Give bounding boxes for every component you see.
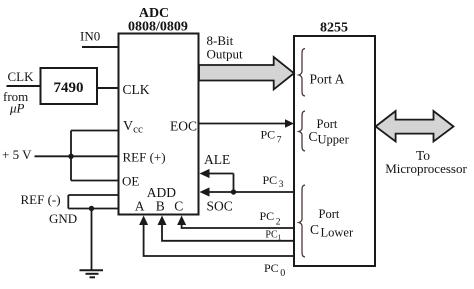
- wire to REF (+) pin: [71, 155, 119, 157]
- wire REF (-) vertical: [67, 195, 69, 209]
- wire PC1 to pin B: [162, 221, 294, 241]
- wire CLK source to 7490: [7, 85, 41, 87]
- svg-text:PC0: PC0: [264, 261, 285, 279]
- svg-text:PC7: PC7: [261, 128, 282, 146]
- arrowhead ALE into ADC: [200, 169, 210, 178]
- wire REF (-) to ADC: [68, 194, 118, 196]
- svg-text:7490: 7490: [54, 80, 84, 96]
- Port C lower label: [310, 207, 354, 240]
- svg-text:B: B: [156, 198, 165, 213]
- wire to Vcc pin: [71, 130, 119, 132]
- To Microprocessor label: [385, 148, 467, 176]
- wire down to ground: [91, 209, 93, 271]
- svg-text:PC2: PC2: [260, 209, 281, 228]
- svg-text:+ 5 V: + 5 V: [2, 147, 32, 162]
- ADC 0808/0809 block U1: [119, 6, 199, 215]
- arrowhead pin A: [139, 216, 148, 226]
- 8-Bit Output label: [207, 33, 244, 62]
- brace Port C upper: [299, 111, 305, 151]
- arrowhead SOC into ADC: [200, 187, 210, 196]
- svg-text:SOC: SOC: [207, 198, 233, 213]
- brace Port C lower: [299, 185, 305, 257]
- svg-text:Port A: Port A: [310, 72, 345, 87]
- svg-text:Output: Output: [207, 47, 244, 62]
- svg-text:IN0: IN0: [80, 29, 100, 44]
- wire 7490 to ADC CLK pin: [97, 87, 119, 89]
- svg-text:Upper: Upper: [318, 133, 350, 147]
- svg-text:REF (+): REF (+): [123, 150, 166, 165]
- wire ALE: [206, 173, 234, 175]
- block arrow 8-bit data bus: [199, 57, 294, 89]
- svg-text:Lower: Lower: [321, 226, 354, 240]
- wire PC3 to SOC: [206, 191, 294, 193]
- 8255 block U2: [294, 21, 375, 267]
- svg-text:C: C: [310, 222, 319, 237]
- svg-text:OE: OE: [122, 174, 139, 189]
- junction PC3: [231, 189, 236, 194]
- svg-text:PC3: PC3: [263, 173, 284, 190]
- svg-text:A: A: [135, 198, 145, 213]
- arrowhead into 8255 PC7: [285, 119, 294, 127]
- wire PC0 to pin A: [144, 221, 294, 256]
- node CLK from uP label: [3, 69, 34, 116]
- wire PC2 to pin C: [182, 221, 294, 228]
- junction GND: [89, 206, 94, 211]
- wire +5V feed: [35, 155, 72, 157]
- wire ALE-SOC vertical: [233, 174, 235, 193]
- svg-text:Microprocessor: Microprocessor: [385, 161, 467, 176]
- svg-text:8255: 8255: [320, 21, 348, 36]
- junction +5V: [68, 154, 73, 159]
- arrowhead pin C: [177, 216, 186, 226]
- svg-text:ALE: ALE: [204, 152, 230, 167]
- svg-text:CLK: CLK: [123, 82, 150, 97]
- wire IN0 to ADC: [82, 46, 119, 48]
- block arrow to microprocessor: [376, 111, 454, 142]
- wire GND to ADC: [68, 208, 118, 210]
- arrowhead pin B: [158, 216, 167, 226]
- svg-text:PC1: PC1: [265, 230, 281, 242]
- svg-text:Port: Port: [317, 117, 338, 131]
- wire to OE pin: [71, 180, 119, 182]
- brace Port A: [299, 49, 305, 97]
- Port C upper label: [309, 117, 350, 147]
- svg-text:C: C: [309, 129, 318, 144]
- ground symbol: [80, 270, 104, 277]
- wire EOC to PC7: [199, 123, 288, 125]
- wire +5V bus vertical: [70, 131, 72, 181]
- svg-text:μP: μP: [9, 101, 25, 116]
- svg-text:EOC: EOC: [170, 119, 197, 134]
- 7490 block U3: [41, 68, 98, 104]
- svg-text:GND: GND: [49, 211, 77, 226]
- svg-text:0808/0809: 0808/0809: [128, 20, 188, 35]
- svg-text:C: C: [174, 198, 183, 213]
- svg-text:Port: Port: [319, 207, 340, 221]
- svg-text:Vcc: Vcc: [123, 119, 143, 136]
- svg-text:CLK: CLK: [8, 69, 35, 84]
- svg-text:REF (-): REF (-): [21, 192, 61, 207]
